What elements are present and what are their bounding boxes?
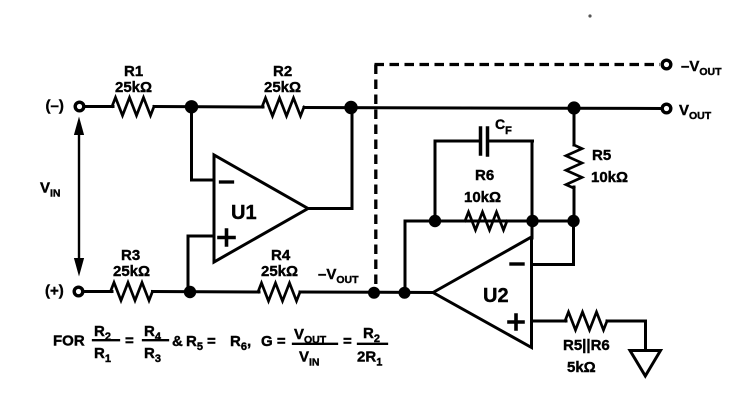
VIN arrowhead bottom (74, 258, 84, 277)
resistor R1 (112, 98, 154, 116)
wire top rail mid (154, 105, 263, 109)
VIN arrowhead top (74, 117, 84, 136)
resistor R6 (465, 212, 507, 230)
wire R5||R6 to ground (607, 321, 646, 350)
output terminal VOUT (662, 104, 671, 113)
capacitor CF plate right (486, 128, 490, 155)
wire U1 non-inverting input (188, 236, 213, 291)
op-amp U1 minus sign (221, 180, 233, 183)
svg-text:VIN: VIN (40, 180, 61, 200)
op-amp U1 plus sign (219, 230, 234, 245)
wire U2 inverting input (532, 221, 574, 265)
resistor R4 (258, 283, 300, 301)
svg-text:25kΩ: 25kΩ (113, 263, 150, 280)
wire dashed feedback vertical (374, 65, 377, 291)
svg-text:–VOUT: –VOUT (318, 266, 359, 286)
svg-text:R6: R6 (475, 167, 494, 184)
resistor R3 (111, 283, 153, 301)
svg-text:=: = (207, 333, 216, 350)
svg-text:R2: R2 (273, 63, 292, 80)
ground (630, 351, 661, 377)
resistor R5 (566, 145, 582, 188)
wire R5 bottom leg (573, 187, 576, 221)
wire bottom rail right (300, 291, 433, 295)
svg-text:G =: G = (261, 333, 286, 350)
wire R6 rail left leg (404, 221, 407, 292)
wire bottom rail mid (153, 290, 260, 294)
node R3-R4 junction (184, 286, 196, 298)
node CF right junction (526, 215, 538, 227)
wire dashed feedback horizontal (375, 63, 661, 66)
op-amp U1 (214, 155, 308, 262)
svg-text:10kΩ: 10kΩ (464, 189, 501, 206)
svg-text:R1: R1 (124, 63, 143, 80)
svg-text:R3: R3 (121, 247, 140, 264)
svg-text:R5: R5 (592, 147, 611, 164)
svg-text:R4: R4 (271, 247, 291, 264)
wire CF right leg down to U2 top corner (531, 141, 534, 238)
input terminal (+) (74, 287, 83, 296)
svg-text:U2: U2 (483, 285, 509, 307)
wire U1 inverting input (192, 107, 214, 180)
svg-text:10kΩ: 10kΩ (591, 169, 628, 186)
svg-text:R6,: R6, (230, 333, 251, 353)
svg-text:VOUT: VOUT (679, 102, 712, 122)
svg-text:VIN: VIN (299, 349, 320, 369)
resistor R2 (262, 98, 304, 116)
svg-text:R5||R6: R5||R6 (563, 337, 610, 354)
node R6 leg junction (399, 287, 411, 299)
node R5 bottom junction (567, 215, 579, 227)
svg-text:&: & (172, 333, 183, 350)
resistor R5||R6 (565, 312, 607, 330)
svg-text:25kΩ: 25kΩ (261, 263, 298, 280)
wire CF left horizontal (435, 140, 478, 143)
wire U2 non-inverting input (532, 320, 567, 323)
svg-text:U1: U1 (231, 202, 257, 224)
wire top rail right (304, 108, 662, 109)
node dashed feedback junction (368, 287, 380, 299)
wire R5 top leg (573, 107, 576, 145)
op-amp U2 (433, 237, 532, 348)
wire CF right horizontal (490, 140, 533, 143)
capacitor CF plate left (479, 128, 483, 154)
node CF left junction (429, 215, 441, 227)
svg-text:R5: R5 (186, 333, 203, 353)
node R1-R2 junction (185, 100, 198, 113)
svg-text:–VOUT: –VOUT (681, 58, 722, 78)
wire U1 output (307, 108, 352, 209)
wire R6 rail (405, 220, 574, 223)
svg-text:2R1: 2R1 (357, 349, 382, 369)
op-amp U2 minus sign (511, 262, 523, 265)
output terminal -VOUT (662, 60, 671, 69)
node R2-output junction (344, 101, 357, 114)
input terminal (-) (75, 102, 84, 111)
svg-text:=: = (125, 333, 134, 350)
wire bottom rail left (84, 290, 113, 293)
svg-text:CF: CF (495, 116, 512, 137)
op-amp U2 plus sign (509, 315, 523, 329)
svg-text:FOR: FOR (53, 333, 85, 350)
svg-text:(+): (+) (45, 283, 64, 300)
svg-text:(–): (–) (46, 98, 64, 115)
svg-text:R2: R2 (363, 325, 380, 345)
VIN arrow shaft (78, 130, 80, 262)
wire CF left leg (434, 141, 437, 221)
svg-text:25kΩ: 25kΩ (264, 79, 301, 96)
svg-text:=: = (343, 333, 352, 350)
svg-text:25kΩ: 25kΩ (115, 79, 152, 96)
speck (588, 14, 591, 17)
node R5 top junction (567, 101, 580, 114)
wire top rail left (85, 105, 114, 108)
svg-text:R1: R1 (94, 345, 111, 365)
svg-text:R3: R3 (144, 345, 161, 365)
svg-text:5kΩ: 5kΩ (567, 359, 596, 376)
